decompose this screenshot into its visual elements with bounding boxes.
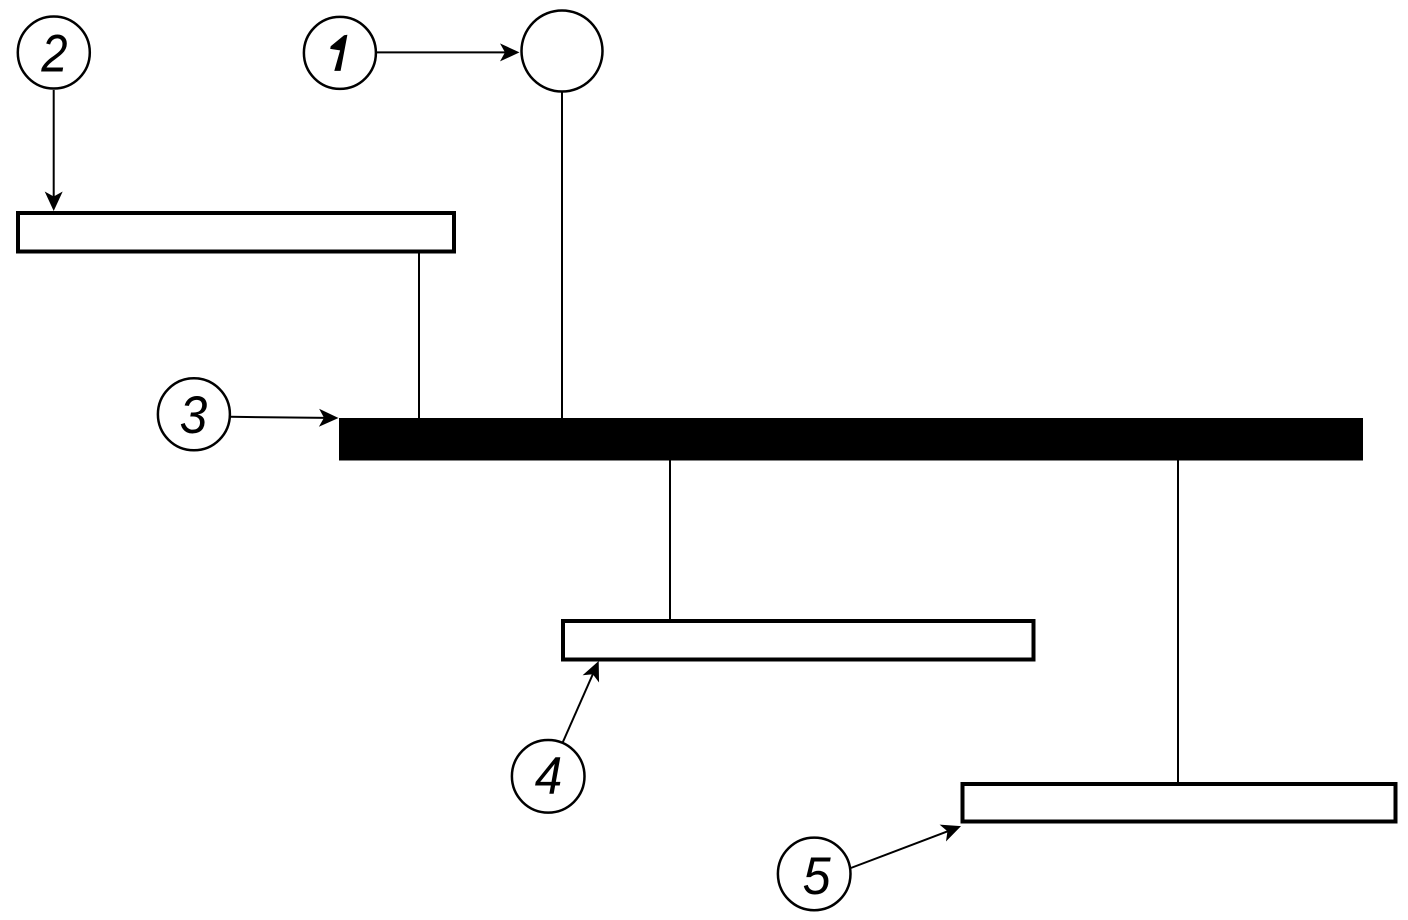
register 4 rectangle: [563, 621, 1034, 660]
svg-text:4: 4: [535, 746, 563, 805]
svg-text:3: 3: [180, 386, 208, 445]
arrow from callout 5 to register 5: [851, 818, 964, 868]
svg-text:5: 5: [803, 846, 831, 905]
callout circle 4: [512, 740, 585, 813]
callout circle 2: [18, 17, 90, 89]
arrow from callout 1 to node circle: [377, 43, 520, 61]
arrow from callout 4 to register 4: [563, 657, 607, 742]
callout circle 3: [158, 378, 230, 450]
wire register 2 to bus: [418, 253, 420, 419]
svg-text:2: 2: [40, 24, 67, 83]
arrow from callout 3 to bus: [230, 409, 339, 427]
arrow from callout 2 to register 2: [45, 90, 63, 211]
callout circle 1: [304, 17, 376, 89]
bus bar (element 3): [339, 418, 1363, 461]
register 5 rectangle: [963, 784, 1396, 822]
wire node circle to bus: [561, 92, 563, 419]
node circle (element 1): [522, 11, 603, 92]
label 1: [330, 35, 347, 71]
wire bus to register 5: [1177, 460, 1179, 782]
register 2 rectangle: [18, 213, 454, 252]
callout circle 5: [778, 838, 851, 911]
wire bus to register 4: [669, 460, 671, 620]
